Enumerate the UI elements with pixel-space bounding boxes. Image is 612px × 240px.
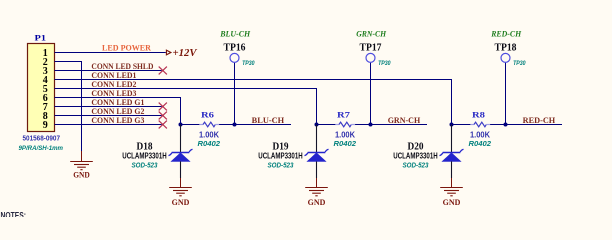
svg-text:CONN LED3: CONN LED3: [91, 89, 136, 98]
no-ERC marker pin8: [159, 112, 167, 120]
ground GND (D19): [305, 178, 328, 196]
svg-text:LED POWER: LED POWER: [102, 42, 152, 52]
wire pin4 CONN LED1 to channel: [55, 80, 452, 125]
test point TP17 circle: [366, 53, 375, 62]
svg-text:R6: R6: [201, 109, 215, 119]
wire TP18 drop: [505, 63, 507, 125]
test point TP16 circle: [230, 53, 239, 62]
svg-text:CONN LED G2: CONN LED G2: [91, 107, 144, 116]
wire pin7 CONN LED G1: [55, 106, 162, 108]
svg-text:1.00K: 1.00K: [470, 130, 490, 139]
svg-text:GND: GND: [73, 170, 90, 179]
svg-text:GND: GND: [443, 197, 461, 207]
wire TP16 drop: [234, 63, 236, 125]
power port +12V arrow: [166, 50, 171, 55]
diode D19: [305, 125, 329, 179]
diode D18: [169, 125, 193, 179]
ground GND (D20): [440, 178, 463, 196]
svg-text:NOTES:: NOTES:: [1, 211, 27, 217]
svg-text:9: 9: [43, 120, 48, 131]
resistor R8: [452, 122, 506, 127]
svg-text:BLU-CH: BLU-CH: [252, 116, 285, 125]
svg-text:CONN LED SHLD: CONN LED SHLD: [91, 62, 153, 71]
svg-text:R0402: R0402: [334, 139, 357, 148]
wire TP17 drop: [370, 63, 372, 125]
svg-text:R8: R8: [472, 109, 486, 119]
wire RED-CH stub: [506, 124, 563, 126]
svg-text:TP18: TP18: [495, 41, 517, 53]
svg-text:CONN LED G1: CONN LED G1: [91, 98, 144, 107]
resistor R6: [181, 122, 235, 127]
svg-text:TP30: TP30: [513, 60, 526, 67]
svg-text:SOD-523: SOD-523: [268, 161, 294, 170]
svg-text:SOD-523: SOD-523: [403, 161, 429, 170]
connector P1 body: [28, 44, 55, 132]
resistor R7: [317, 122, 371, 127]
wire pin5 CONN LED2 to channel: [55, 89, 317, 125]
wire pin9 CONN LED G3: [55, 124, 162, 126]
svg-text:GND: GND: [308, 197, 326, 207]
svg-text:R0402: R0402: [469, 139, 492, 148]
svg-text:+12V: +12V: [173, 48, 198, 59]
svg-text:SOD-523: SOD-523: [132, 161, 158, 170]
junction TP17 node: [369, 123, 373, 127]
svg-text:P1: P1: [35, 33, 47, 43]
wire pin6 CONN LED3 to channel: [55, 98, 181, 125]
no-ERC marker pin7: [159, 103, 167, 111]
svg-text:TP17: TP17: [360, 41, 382, 53]
svg-text:RED-CH: RED-CH: [490, 29, 522, 38]
ground GND (D18): [169, 178, 192, 196]
svg-text:CONN LED1: CONN LED1: [91, 71, 136, 80]
junction R6 left node: [179, 123, 183, 127]
svg-text:CONN LED G3: CONN LED G3: [91, 116, 144, 125]
wire pin3 CONN LED SHLD: [55, 70, 162, 72]
svg-text:R7: R7: [337, 109, 351, 119]
junction R8 left node: [450, 123, 454, 127]
svg-text:TP30: TP30: [242, 60, 255, 67]
wire BLU-CH stub: [235, 124, 292, 126]
svg-text:BLU-CH: BLU-CH: [219, 29, 251, 38]
junction R7 left node: [315, 123, 319, 127]
svg-text:RED-CH: RED-CH: [523, 116, 556, 125]
svg-text:GND: GND: [172, 197, 190, 207]
svg-text:TP16: TP16: [224, 41, 246, 53]
junction TP18 node: [504, 123, 508, 127]
svg-text:501568-0907: 501568-0907: [23, 133, 61, 142]
wire pin1 to +12V: [55, 52, 166, 54]
svg-text:GRN-CH: GRN-CH: [388, 116, 421, 125]
ground GND (P1 pin2): [70, 151, 93, 170]
no-ERC marker pin9: [159, 121, 167, 129]
svg-text:9P/RA/SH-1mm: 9P/RA/SH-1mm: [19, 145, 64, 152]
test point TP18 circle: [501, 53, 510, 62]
wire GRN-CH stub: [371, 124, 428, 126]
no-ERC marker pin3: [159, 67, 167, 75]
wire pin8 CONN LED G2: [55, 115, 162, 117]
wire pin2 to ground: [55, 62, 82, 152]
svg-text:GRN-CH: GRN-CH: [356, 29, 387, 38]
diode D20: [440, 125, 464, 179]
svg-text:CONN LED2: CONN LED2: [91, 80, 136, 89]
junction TP16 node: [233, 123, 237, 127]
svg-text:1.00K: 1.00K: [199, 130, 219, 139]
svg-text:TP30: TP30: [378, 60, 391, 67]
svg-text:R0402: R0402: [198, 139, 221, 148]
svg-text:UCLAMP3301H: UCLAMP3301H: [122, 151, 167, 160]
svg-text:UCLAMP3301H: UCLAMP3301H: [258, 151, 303, 160]
svg-text:1.00K: 1.00K: [335, 130, 355, 139]
svg-text:UCLAMP3301H: UCLAMP3301H: [393, 151, 438, 160]
